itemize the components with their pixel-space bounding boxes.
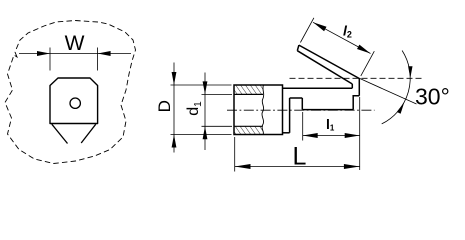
dashed reference line — [290, 77, 425, 79]
dimension d1 — [202, 73, 233, 151]
notch right edge — [301, 98, 303, 110]
end face — [358, 79, 360, 96]
svg-text:W: W — [65, 32, 85, 55]
tab top edge (flange + tab) — [283, 87, 353, 89]
svg-text:D: D — [155, 100, 174, 112]
hatch bottom band — [234, 126, 263, 134]
blob outline (dashed freehand boundary) — [5, 21, 136, 164]
label d1 — [185, 101, 204, 116]
dimension l2 — [300, 18, 374, 76]
centerline — [227, 109, 375, 111]
dimension L — [235, 137, 360, 172]
tip end cap — [297, 45, 299, 51]
tab bottom edge — [302, 109, 353, 111]
dimension l1 — [303, 97, 360, 170]
bore-end wavy break line — [262, 85, 264, 135]
end step — [353, 96, 359, 110]
blade front outline — [50, 78, 98, 124]
tip line right — [81, 124, 96, 143]
hatch top band — [234, 85, 264, 94]
folded tip outer line — [299, 45, 359, 78]
hole — [70, 98, 80, 108]
tip line left — [52, 124, 68, 143]
body outline — [234, 85, 283, 135]
svg-text:L: L — [293, 143, 307, 171]
arc arrow at leader line — [397, 102, 405, 114]
angle arc — [382, 51, 411, 124]
folded tip inner line — [297, 51, 352, 84]
arc arrow at dashed line — [408, 66, 412, 78]
flange right edge — [289, 98, 291, 133]
bore bottom line — [234, 125, 263, 127]
bend root drop — [351, 84, 353, 88]
flange bottom edge — [283, 132, 290, 134]
dimension D — [171, 63, 232, 153]
svg-text:30°: 30° — [415, 84, 450, 110]
notch top edge — [290, 97, 303, 99]
30 degree leader line — [359, 78, 416, 104]
dimension W — [19, 48, 131, 71]
bore top line — [234, 93, 263, 95]
